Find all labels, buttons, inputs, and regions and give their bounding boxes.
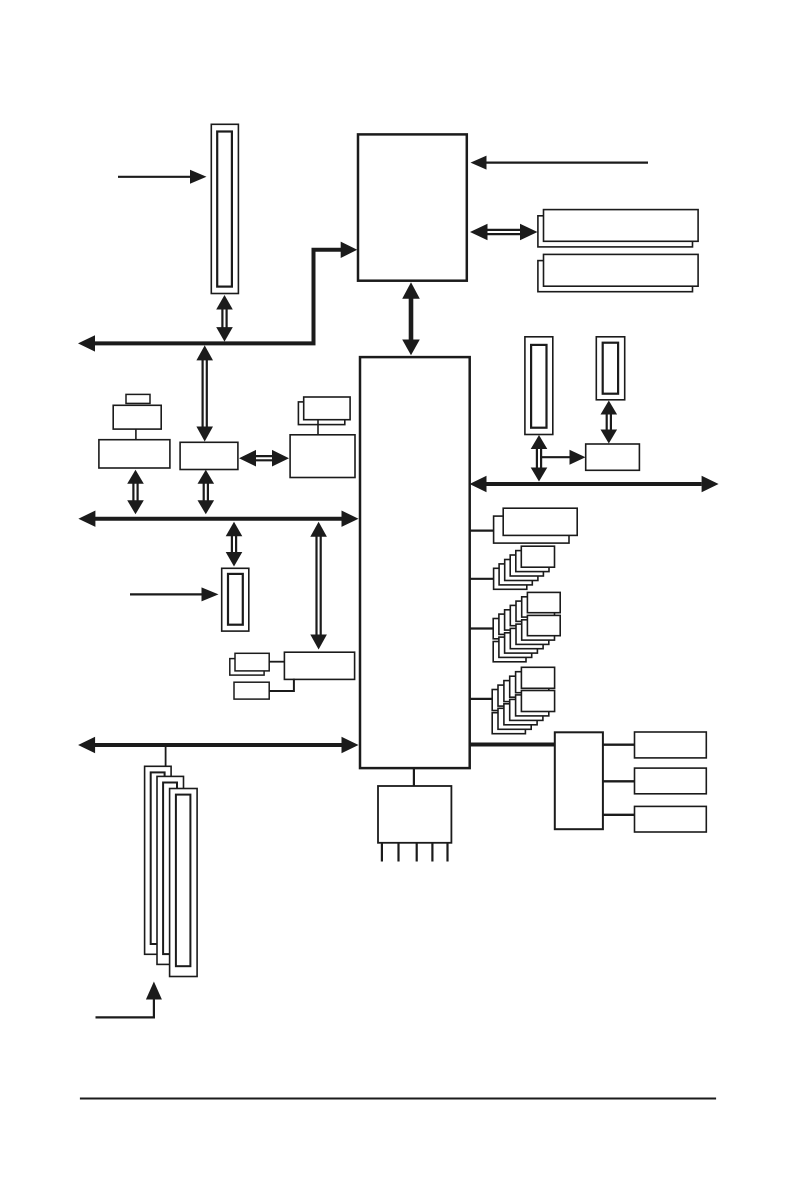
wire bus to PCI slots [165,747,167,766]
clock generator box [180,442,238,469]
memory bus double arrow [487,229,522,231]
arrow into graphics slot [118,176,192,178]
wire port to controller [317,420,319,435]
PCIe x16 graphics slot (top left) [211,124,238,293]
USB 3.0 ports front box [503,508,577,535]
double arrow bus to clock generator box [202,359,204,427]
thick PCIe bus elbow into CPU and top bus with left arrow [95,250,342,344]
PCI bus (bottom) [95,743,342,747]
super IO box [378,786,451,843]
left codec box [99,440,170,468]
audio jack box 3 [635,806,707,832]
double arrow graphics slot to bus [221,309,223,329]
double arrow CPU to chipset DMI [409,296,414,342]
audio jack box 1 [635,732,707,758]
arrow branch to switch box [541,456,571,458]
PCI slot 1 [145,766,172,954]
wire codec to audio jack 2 [603,780,635,782]
footer rule [80,1098,716,1100]
LED box below RJ45 [234,682,269,699]
small crystal box [126,394,150,403]
elbow arrow up into PCI slots [96,998,154,1017]
double arrow codec to bus [132,483,134,502]
super IO pin legs [381,843,383,862]
double arrow clock gen to IO controller [255,455,273,457]
IO controller box [290,435,355,478]
audio codec box [555,732,603,829]
long double arrow bus to LAN controller [315,536,317,636]
USB 3.0 ports shadow box [494,516,569,543]
switch box under M.2 [586,444,640,470]
wire codec to audio jack 3 [603,814,635,816]
double arrow PCIe x1 slot to bus [536,448,538,469]
double arrow bus to front panel slot [231,535,233,553]
double arrow M.2 slot to switch box [606,414,608,431]
DDR DIMM socket 1 [538,216,693,247]
CPU block [358,134,467,280]
RJ45 port shadow pair [230,659,264,676]
wire chipset to SATA stack B [470,698,495,700]
wire chipset to USB 2 stack [470,578,495,580]
arrow into CPU from right [487,162,649,164]
wire oscillator to codec box [135,429,137,440]
wire RJ45 to LAN controller [269,661,284,663]
PCI slot 3 [170,789,198,977]
DDR DIMM socket 2 [538,261,693,292]
port shadow box pair (right of clock gen) [298,402,344,425]
double arrow clock gen to bus [203,483,205,502]
wire chipset to SATA stack A [470,627,495,629]
PCIe bus (right) [487,482,702,486]
wire LED box elbow to LAN controller bottom [269,679,294,692]
wire chipset to USB 3 group [470,529,495,531]
PCIe x1 slot (right side tall) [525,337,553,435]
oscillator box [113,405,161,429]
LAN controller box [284,652,354,679]
front panel header slot [222,568,249,631]
SATA connector stack A (7 cascaded pairs) [493,619,526,639]
audio jack box 2 [635,768,707,794]
SATA connector stack B (6 cascaded pairs) [492,690,525,711]
M.2 slot (right side short) [596,337,624,400]
PCI slot 2 [157,776,184,964]
USB 2.0 port stack (6 cascaded) [494,568,527,589]
chipset block (center) [360,357,470,768]
LPC bus (middle left) [95,517,342,521]
wire codec to audio jack 1 [603,744,635,746]
super IO wire from chipset [413,768,415,786]
arrow into front panel slot [130,593,202,595]
thick wire chipset to audio codec [470,743,556,747]
